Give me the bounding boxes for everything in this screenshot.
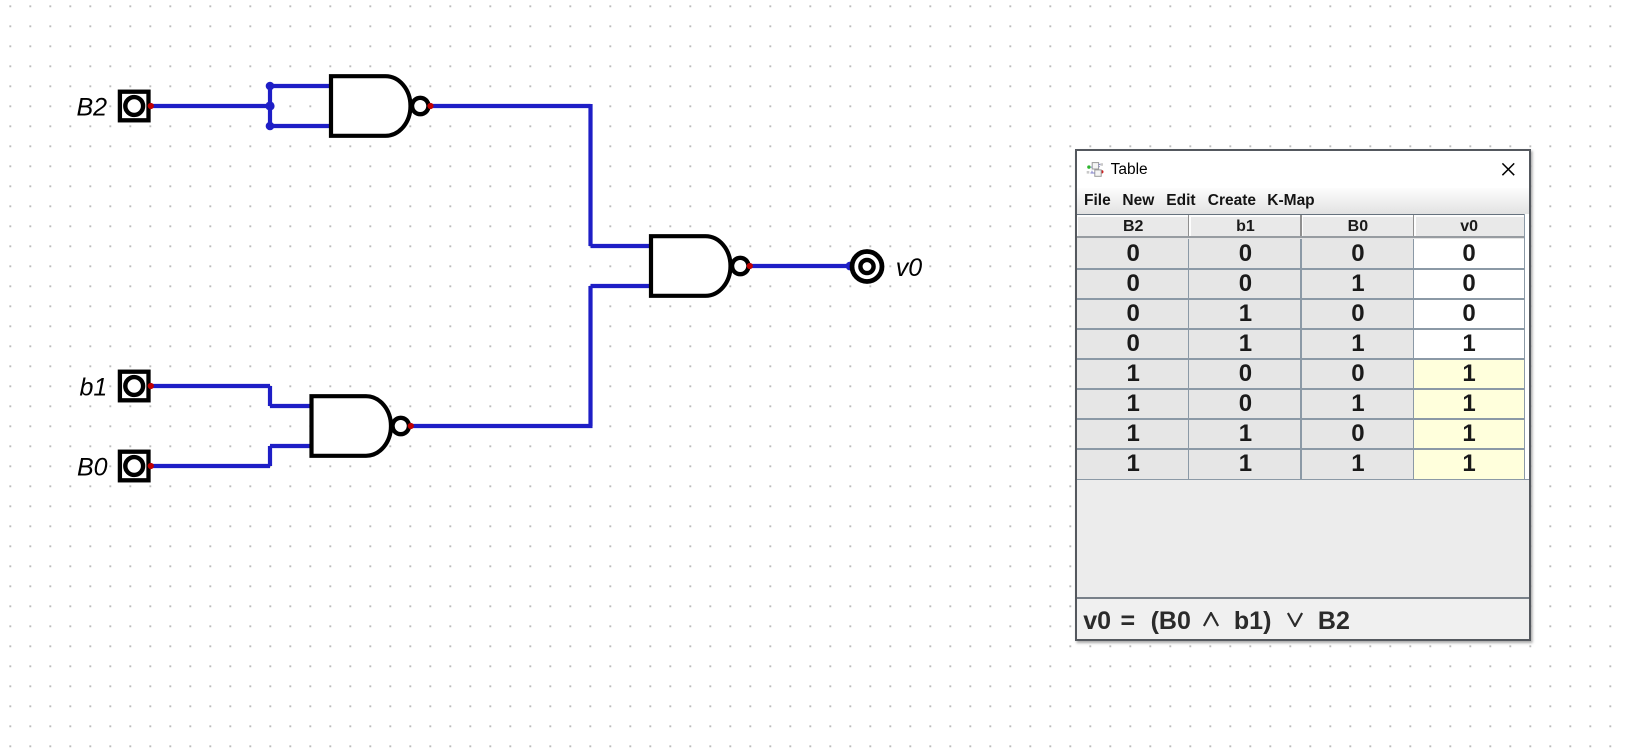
cell r2c1 value 0: [1077, 269, 1189, 299]
header label B2: [1077, 218, 1189, 236]
header label b1: [1189, 218, 1301, 236]
port dot NAND2 output: [747, 263, 753, 269]
wire end cap at NAND3 input B: [310, 444, 315, 449]
wire NAND2 output to v0 pin: [750, 264, 851, 268]
wire lower branch to NAND1 input B: [270, 124, 330, 128]
body column gridline at x=112.4: [1188, 239, 1189, 479]
svg-text:v0: v0: [896, 254, 923, 282]
port dot NAND1 output: [427, 103, 433, 109]
wire vertical from NAND3 output: [588, 286, 592, 426]
v0 column white background (rows 1-4): [1414, 239, 1524, 359]
cell r6c2 value 0: [1189, 389, 1301, 419]
wire end cap at NAND3 input A: [310, 404, 315, 409]
cell r4c3 value 1: [1302, 329, 1415, 359]
cell r1c4 value 0: [1414, 239, 1524, 269]
cell r6c4 value 1: [1414, 389, 1524, 419]
wire NAND3 output horizontal: [411, 424, 593, 428]
empty panel right border: [1524, 479, 1525, 597]
row gridline 4: [1077, 358, 1525, 359]
cell r7c4 value 1: [1414, 419, 1524, 449]
title bar: [1077, 151, 1529, 188]
cell r6c3 value 1: [1302, 389, 1415, 419]
cell r8c3 value 1: [1302, 449, 1415, 479]
wire into NAND2 input A: [591, 244, 652, 248]
table right border: [1524, 214, 1525, 479]
wire bend dot at (270,86): [266, 82, 275, 91]
input pin B0 inner circle: [125, 457, 143, 475]
Table window: [1075, 149, 1531, 641]
wire b1 bend vertical: [268, 386, 272, 406]
cell r3c2 value 1: [1189, 299, 1301, 329]
wire NAND1 output horizontal: [430, 104, 591, 108]
cell r3c4 value 0: [1414, 299, 1524, 329]
cell r4c1 value 0: [1077, 329, 1189, 359]
cell r2c3 value 1: [1302, 269, 1415, 299]
cell r7c3 value 0: [1302, 419, 1415, 449]
cell r2c4 value 0: [1414, 269, 1524, 299]
wire B0 bend vertical: [268, 446, 272, 466]
header bottom bevel: [1077, 236, 1524, 237]
NAND gate U1 bubble: [412, 98, 428, 114]
input pin B2 inner circle: [125, 97, 143, 115]
row gridline 2: [1077, 298, 1525, 299]
cell r3c3 value 0: [1302, 299, 1415, 329]
port dot B0 pin output: [148, 463, 154, 469]
cell r5c3 value 0: [1302, 359, 1415, 389]
wire B0 into NAND3 input B: [270, 444, 312, 448]
cell r4c2 value 1: [1189, 329, 1301, 359]
menu bar: [1077, 188, 1529, 214]
cell r1c1 value 0: [1077, 239, 1189, 269]
cell r2c2 value 0: [1189, 269, 1301, 299]
truth table panel top border: [1077, 214, 1525, 215]
truth table header row background: [1077, 215, 1524, 239]
body column gridline at x=224.6: [1300, 239, 1301, 479]
header cell separator at x=112.4: [1188, 215, 1190, 236]
header left highlight: [1077, 215, 1078, 236]
input pin B2 square: [120, 92, 149, 121]
body column gridline at x=337.2: [1413, 239, 1414, 479]
junction dot on B2 net: [265, 101, 274, 110]
wire junction vertical branch: [268, 84, 272, 128]
cell r5c2 value 0: [1189, 359, 1301, 389]
wire end cap at NAND1 input B: [329, 124, 334, 129]
header cell separator at x=224.6: [1300, 215, 1302, 236]
wire B0 pin horizontal: [151, 464, 271, 468]
wire NAND1 output vertical down: [588, 104, 592, 246]
cell r5c1 value 1: [1077, 359, 1189, 389]
wire B2 pin to junction: [151, 104, 271, 108]
port dot b1 pin output: [148, 383, 154, 389]
wire end cap at NAND1 input A: [329, 84, 334, 89]
wire bend dot at (270,126): [266, 122, 275, 131]
header label v0: [1414, 218, 1524, 236]
cell r8c2 value 1: [1189, 449, 1301, 479]
wire upper branch to NAND1 input A: [270, 84, 330, 88]
wire end dot at v0 pin: [846, 262, 855, 271]
cell r8c4 value 1: [1414, 449, 1524, 479]
svg-text:B2: B2: [77, 94, 108, 122]
header top highlight: [1077, 215, 1524, 216]
window icon: [1086, 162, 1104, 178]
divider above formula bar: [1077, 597, 1529, 599]
wire b1 into NAND3 input A: [270, 404, 312, 408]
input columns background: [1077, 239, 1414, 479]
formula bar: [1077, 599, 1529, 639]
port dot B2 pin output: [148, 103, 154, 109]
header cell separator at x=337.2: [1413, 215, 1415, 236]
cell r5c4 value 1: [1414, 359, 1524, 389]
input pin b1 inner circle: [125, 377, 143, 395]
v0 column yellow background (rows 5-8): [1414, 359, 1524, 479]
input pin B0 square: [120, 452, 149, 481]
wire end cap at NAND2 input A: [649, 244, 654, 249]
output pin v0 inner circle: [860, 260, 873, 273]
header label B0: [1302, 218, 1415, 236]
NAND gate U3 body: [312, 396, 391, 456]
input pin b1 square: [120, 372, 149, 401]
cell r8c1 value 1: [1077, 449, 1189, 479]
svg-text:B0: B0: [77, 454, 108, 482]
row gridline 6: [1077, 418, 1525, 419]
row gridline 3: [1077, 328, 1525, 329]
cell r4c4 value 1: [1414, 329, 1524, 359]
cell r6c1 value 1: [1077, 389, 1189, 419]
row gridline 5: [1077, 388, 1525, 389]
NAND gate U1 body: [331, 76, 410, 136]
wire b1 pin horizontal: [151, 384, 271, 388]
cell r3c1 value 0: [1077, 299, 1189, 329]
wire end cap at NAND2 input B: [649, 284, 654, 289]
svg-text:b1: b1: [80, 374, 108, 402]
NAND gate U2 (output gate) bubble: [732, 258, 748, 274]
close button X: [1501, 162, 1516, 177]
row gridline 7: [1077, 448, 1525, 449]
cell r7c1 value 1: [1077, 419, 1189, 449]
NAND gate U2 (output gate) body: [651, 236, 731, 296]
wire into NAND2 input B: [591, 284, 652, 288]
output pin v0 outer circle: [852, 252, 882, 282]
cell r1c2 value 0: [1189, 239, 1301, 269]
port dot NAND3 output: [408, 423, 414, 429]
row gridline 1: [1077, 268, 1525, 269]
empty panel below table: [1077, 479, 1529, 597]
cell r7c2 value 1: [1189, 419, 1301, 449]
cell r1c3 value 0: [1302, 239, 1415, 269]
NAND gate U3 bubble: [393, 418, 409, 434]
